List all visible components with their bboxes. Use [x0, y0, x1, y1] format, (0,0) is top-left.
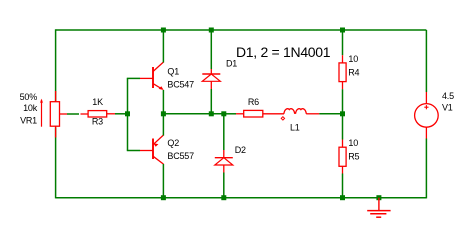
wire left vertical lower — [55, 127, 57, 198]
wire Q2 collector down — [162, 164, 164, 198]
R5 value label 10 — [348, 138, 358, 148]
wire Q1 emitter down — [162, 90, 164, 114]
node base junction — [125, 111, 130, 116]
svg-text:50%: 50% — [20, 92, 38, 102]
wire Q2 emitter up — [162, 114, 164, 136]
svg-text:Q1: Q1 — [167, 67, 179, 77]
svg-text:Q2: Q2 — [167, 138, 179, 148]
R3 ref label — [92, 117, 103, 127]
svg-text:D2: D2 — [235, 145, 246, 155]
node D2 bottom junction — [221, 195, 226, 200]
diode D1 — [202, 69, 220, 89]
resistor R5 — [339, 140, 346, 174]
R3 value label 1K — [92, 97, 103, 107]
R4 ref label — [348, 67, 359, 77]
wire R4 bottom — [342, 89, 344, 114]
svg-text:D1, 2 = 1N4001: D1, 2 = 1N4001 — [236, 44, 331, 60]
wire emitter rail to D1 node — [163, 113, 223, 115]
wire D1 bottom — [210, 89, 212, 114]
wire D2 top — [223, 114, 225, 150]
svg-text:BC547: BC547 — [167, 80, 194, 90]
node Q2 collector bottom junction — [161, 195, 166, 200]
node ground junction — [376, 195, 381, 200]
svg-text:BC557: BC557 — [167, 151, 194, 161]
node D1 top junction — [209, 28, 214, 33]
svg-text:D1: D1 — [226, 59, 237, 69]
wire R4 top — [342, 30, 344, 55]
wire top rail — [56, 29, 427, 31]
V1 ref label — [442, 103, 453, 113]
wire Q1 collector up — [162, 30, 164, 63]
inductor L1 — [281, 109, 319, 120]
node D2 top junction — [221, 111, 226, 116]
Q2 ref label — [167, 138, 179, 148]
wire D1 top — [210, 30, 212, 69]
R6 ref label — [248, 97, 259, 107]
wire V1 top — [425, 30, 427, 92]
transistor Q1 — [140, 62, 164, 90]
D2 ref label — [235, 145, 246, 155]
wire to Q2 base — [127, 150, 140, 152]
node emitter junction — [161, 111, 166, 116]
wire R3 to base node — [115, 113, 128, 115]
svg-text:R5: R5 — [348, 151, 359, 161]
node mid junction R4 R5 — [340, 111, 345, 116]
resistor R6 — [236, 110, 284, 117]
wire to Q1 base — [127, 77, 140, 79]
Q2 value label BC557 — [167, 151, 194, 161]
node D1 bottom junction — [209, 111, 214, 116]
svg-text:10: 10 — [348, 138, 358, 148]
wire R5 bottom — [342, 174, 344, 198]
Q1 ref label — [167, 67, 179, 77]
wire left vertical upper — [55, 29, 57, 101]
VR1 value label 50% — [20, 92, 38, 102]
wire node to R6 — [224, 113, 236, 115]
Q1 value label BC547 — [167, 80, 194, 90]
svg-text:1K: 1K — [92, 97, 103, 107]
R4 value label 10 — [348, 54, 358, 64]
R5 ref label — [348, 151, 359, 161]
svg-text:R4: R4 — [348, 67, 359, 77]
svg-text:VR1: VR1 — [20, 115, 37, 125]
wire L1 to mid node — [319, 113, 342, 115]
node Q1 collector top junction — [161, 28, 166, 33]
diode D2 — [215, 150, 233, 173]
svg-text:10: 10 — [348, 54, 358, 64]
svg-text:L1: L1 — [290, 123, 300, 133]
annotation D1, 2 = 1N4001 — [236, 44, 331, 60]
wire VR1 wiper to R3 — [67, 113, 79, 115]
transistor Q2 — [140, 135, 164, 164]
svg-text:10k: 10k — [23, 103, 38, 113]
VR1 ref label — [20, 115, 37, 125]
wire R5 top — [342, 114, 344, 140]
ground — [367, 198, 390, 218]
L1 ref label — [290, 123, 300, 133]
wire bottom rail — [56, 197, 427, 199]
VR1 value label 10k — [23, 103, 38, 113]
voltage source V1 — [415, 92, 439, 139]
svg-text:R3: R3 — [92, 117, 103, 127]
V1 value label 4.5 — [442, 91, 454, 101]
svg-text:V1: V1 — [442, 103, 453, 113]
node R5 bottom junction — [340, 195, 345, 200]
wire V1 bottom — [425, 139, 427, 199]
D1 ref label — [226, 59, 237, 69]
resistor R4 — [339, 55, 346, 89]
wire base vertical — [127, 78, 129, 150]
wire D2 bottom — [223, 173, 225, 198]
node R4 top junction — [340, 28, 345, 33]
svg-text:4.5: 4.5 — [442, 91, 454, 101]
resistor R3 — [81, 111, 116, 117]
svg-text:R6: R6 — [248, 97, 259, 107]
potentiometer VR1 — [40, 91, 67, 138]
